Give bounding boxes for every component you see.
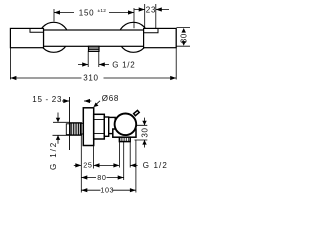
svg-text:G 1/2: G 1/2 xyxy=(143,161,168,170)
wall nipple tip xyxy=(66,124,70,135)
knob circle xyxy=(115,114,137,136)
row2: dim 80 xyxy=(81,177,123,179)
descending extension lines xyxy=(80,135,82,193)
nut facet lines xyxy=(94,120,105,134)
right cap notch xyxy=(144,28,158,32)
left union circle xyxy=(39,22,69,52)
row1: G12 right arrow xyxy=(130,164,137,166)
arrow 150 right xyxy=(128,10,134,14)
arrow 310 right xyxy=(170,76,176,80)
dim 23 tails xyxy=(135,9,170,11)
left G12 vertical dim line xyxy=(57,113,59,144)
outlet ribs xyxy=(89,48,100,50)
svg-text:±12: ±12 xyxy=(98,8,107,14)
dim 30 bottom-right ext lines xyxy=(135,125,148,140)
bottom stub xyxy=(119,137,130,141)
arrow down xyxy=(56,118,60,123)
dim 310 extension lines xyxy=(10,29,176,80)
svg-text:150: 150 xyxy=(79,9,94,18)
arrow 310 left xyxy=(10,76,16,80)
ring 2 xyxy=(109,117,116,133)
arrow at plate front xyxy=(84,100,91,102)
wall extension line xyxy=(69,97,71,150)
row1: arrow into 25 xyxy=(74,164,82,166)
left cap notch xyxy=(30,28,44,32)
dim 150 extension line right xyxy=(133,8,135,28)
row3: dim 103 xyxy=(81,189,136,191)
svg-text:30: 30 xyxy=(141,127,150,137)
svg-text:103: 103 xyxy=(100,186,114,195)
arrow G12 right xyxy=(99,62,105,66)
collar under knob xyxy=(113,129,136,137)
threaded nipple xyxy=(70,123,81,135)
hex nut xyxy=(94,114,105,139)
G 1/2 top tails xyxy=(78,64,109,66)
row1: 25 right arrow + line to stub xyxy=(94,164,120,166)
nipple collar xyxy=(81,123,83,134)
right end cap xyxy=(144,28,177,47)
svg-text:25: 25 xyxy=(83,161,92,170)
svg-text:80: 80 xyxy=(97,173,106,182)
vertical line + arrows xyxy=(144,118,146,148)
nipple thread hatch xyxy=(72,123,81,135)
svg-text:G 1/2: G 1/2 xyxy=(112,60,135,69)
svg-text:15 - 23: 15 - 23 xyxy=(32,95,62,104)
escutcheon plate xyxy=(83,108,93,146)
svg-text:Ø68: Ø68 xyxy=(102,94,119,103)
bar body xyxy=(44,30,147,46)
bottom outlet stub (top view) xyxy=(89,46,100,51)
arrow 23 left xyxy=(139,7,145,11)
leader line for D68 xyxy=(95,101,100,105)
dim 310 line xyxy=(10,77,176,79)
svg-text:23: 23 xyxy=(146,5,156,14)
dim 150 line xyxy=(54,12,134,14)
right union circle xyxy=(118,22,148,52)
svg-text:G 1/2: G 1/2 xyxy=(49,141,58,170)
dim 23 extension lines xyxy=(145,4,156,29)
arrow 15-23 xyxy=(62,100,69,102)
safety button xyxy=(134,110,140,115)
dim 30 top-right arrows xyxy=(182,28,186,33)
dim 30 top-right ext lines xyxy=(177,28,191,47)
svg-text:310: 310 xyxy=(83,74,98,83)
arrow up xyxy=(56,135,60,140)
left end cap xyxy=(10,28,43,47)
svg-text:30: 30 xyxy=(180,33,189,43)
bottom stub hatch xyxy=(121,137,128,141)
G 1/2 top dim extension lines xyxy=(88,51,99,67)
left G12 dim ext lines xyxy=(53,122,71,135)
arrow 150 left xyxy=(54,10,60,14)
ring 1 xyxy=(104,117,108,136)
arrow G12 left xyxy=(82,62,88,66)
dim 150 extension line left xyxy=(53,9,55,22)
arrow 23 right xyxy=(156,7,162,11)
